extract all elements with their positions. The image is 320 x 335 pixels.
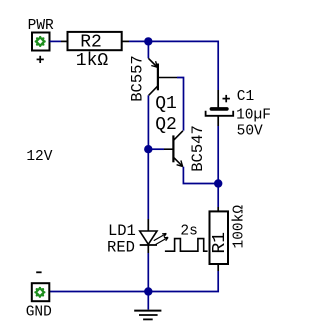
transistor Q1 BC557 (148, 58, 177, 95)
wire PWR to R2 (50, 40, 62, 42)
wire node B to Q2 base (148, 148, 164, 150)
capacitor C1 (206, 107, 234, 116)
minus sign of GND (36, 271, 41, 273)
svg-text:RED: RED (107, 239, 135, 257)
plus sign of C1 (223, 95, 230, 102)
wire node B down to LED (147, 149, 149, 219)
junction node C (214, 179, 222, 187)
LED emission arrows (154, 234, 168, 245)
wire R1 to bottom rail (48, 271, 218, 292)
ground (134, 311, 161, 320)
pin R1 top (217, 207, 219, 211)
wire node A to Q1 emitter (147, 41, 149, 58)
svg-text:LD1: LD1 (108, 222, 136, 240)
transistor Q2 BC547 (164, 131, 183, 167)
svg-text:GND: GND (26, 304, 52, 320)
pin R2 left (61, 40, 68, 42)
wire Q2 emitter to node C (183, 167, 218, 184)
wire top rail to C1 (148, 41, 218, 90)
pin LED cathode (147, 245, 149, 253)
LED LD1 (140, 231, 157, 245)
resistor R1 (210, 211, 229, 264)
plus sign of PWR (37, 56, 44, 63)
terminal J1 PWR (32, 33, 50, 51)
wire C1 to node C (217, 126, 219, 184)
svg-text:2s: 2s (180, 223, 197, 239)
svg-text:BC557: BC557 (128, 55, 146, 102)
pin LED anode (147, 219, 149, 231)
svg-text:10µF: 10µF (236, 107, 271, 123)
svg-text:R1: R1 (210, 232, 230, 254)
wire Q1 base to Q2 collector (177, 78, 184, 131)
resistor R2 (68, 32, 122, 50)
wire node C to R1 (217, 184, 219, 208)
junction node B (Q2 base) (144, 145, 152, 153)
svg-text:50V: 50V (237, 124, 263, 140)
svg-text:12V: 12V (26, 149, 52, 165)
wire LED to bottom rail (147, 253, 149, 292)
wire Q1 collector down to node B (147, 95, 149, 149)
terminal J2 GND (32, 283, 50, 301)
svg-text:R2: R2 (80, 33, 102, 53)
svg-text:100kΩ: 100kΩ (231, 205, 247, 249)
svg-text:Q2: Q2 (155, 115, 177, 135)
pin R2 right (122, 40, 129, 42)
svg-text:1kΩ: 1kΩ (76, 51, 109, 71)
svg-text:Q1: Q1 (155, 94, 177, 114)
wire node D to ground (147, 292, 149, 310)
pin C1 top (217, 90, 219, 107)
svg-text:C1: C1 (237, 89, 254, 105)
pin R1 bottom (217, 264, 219, 271)
wire R2 to node A (129, 40, 148, 42)
junction node A (144, 37, 152, 45)
junction node D (144, 287, 152, 295)
svg-text:BC547: BC547 (189, 125, 207, 172)
waveform symbol 2s (165, 239, 208, 252)
pin C1 bottom (217, 116, 219, 126)
